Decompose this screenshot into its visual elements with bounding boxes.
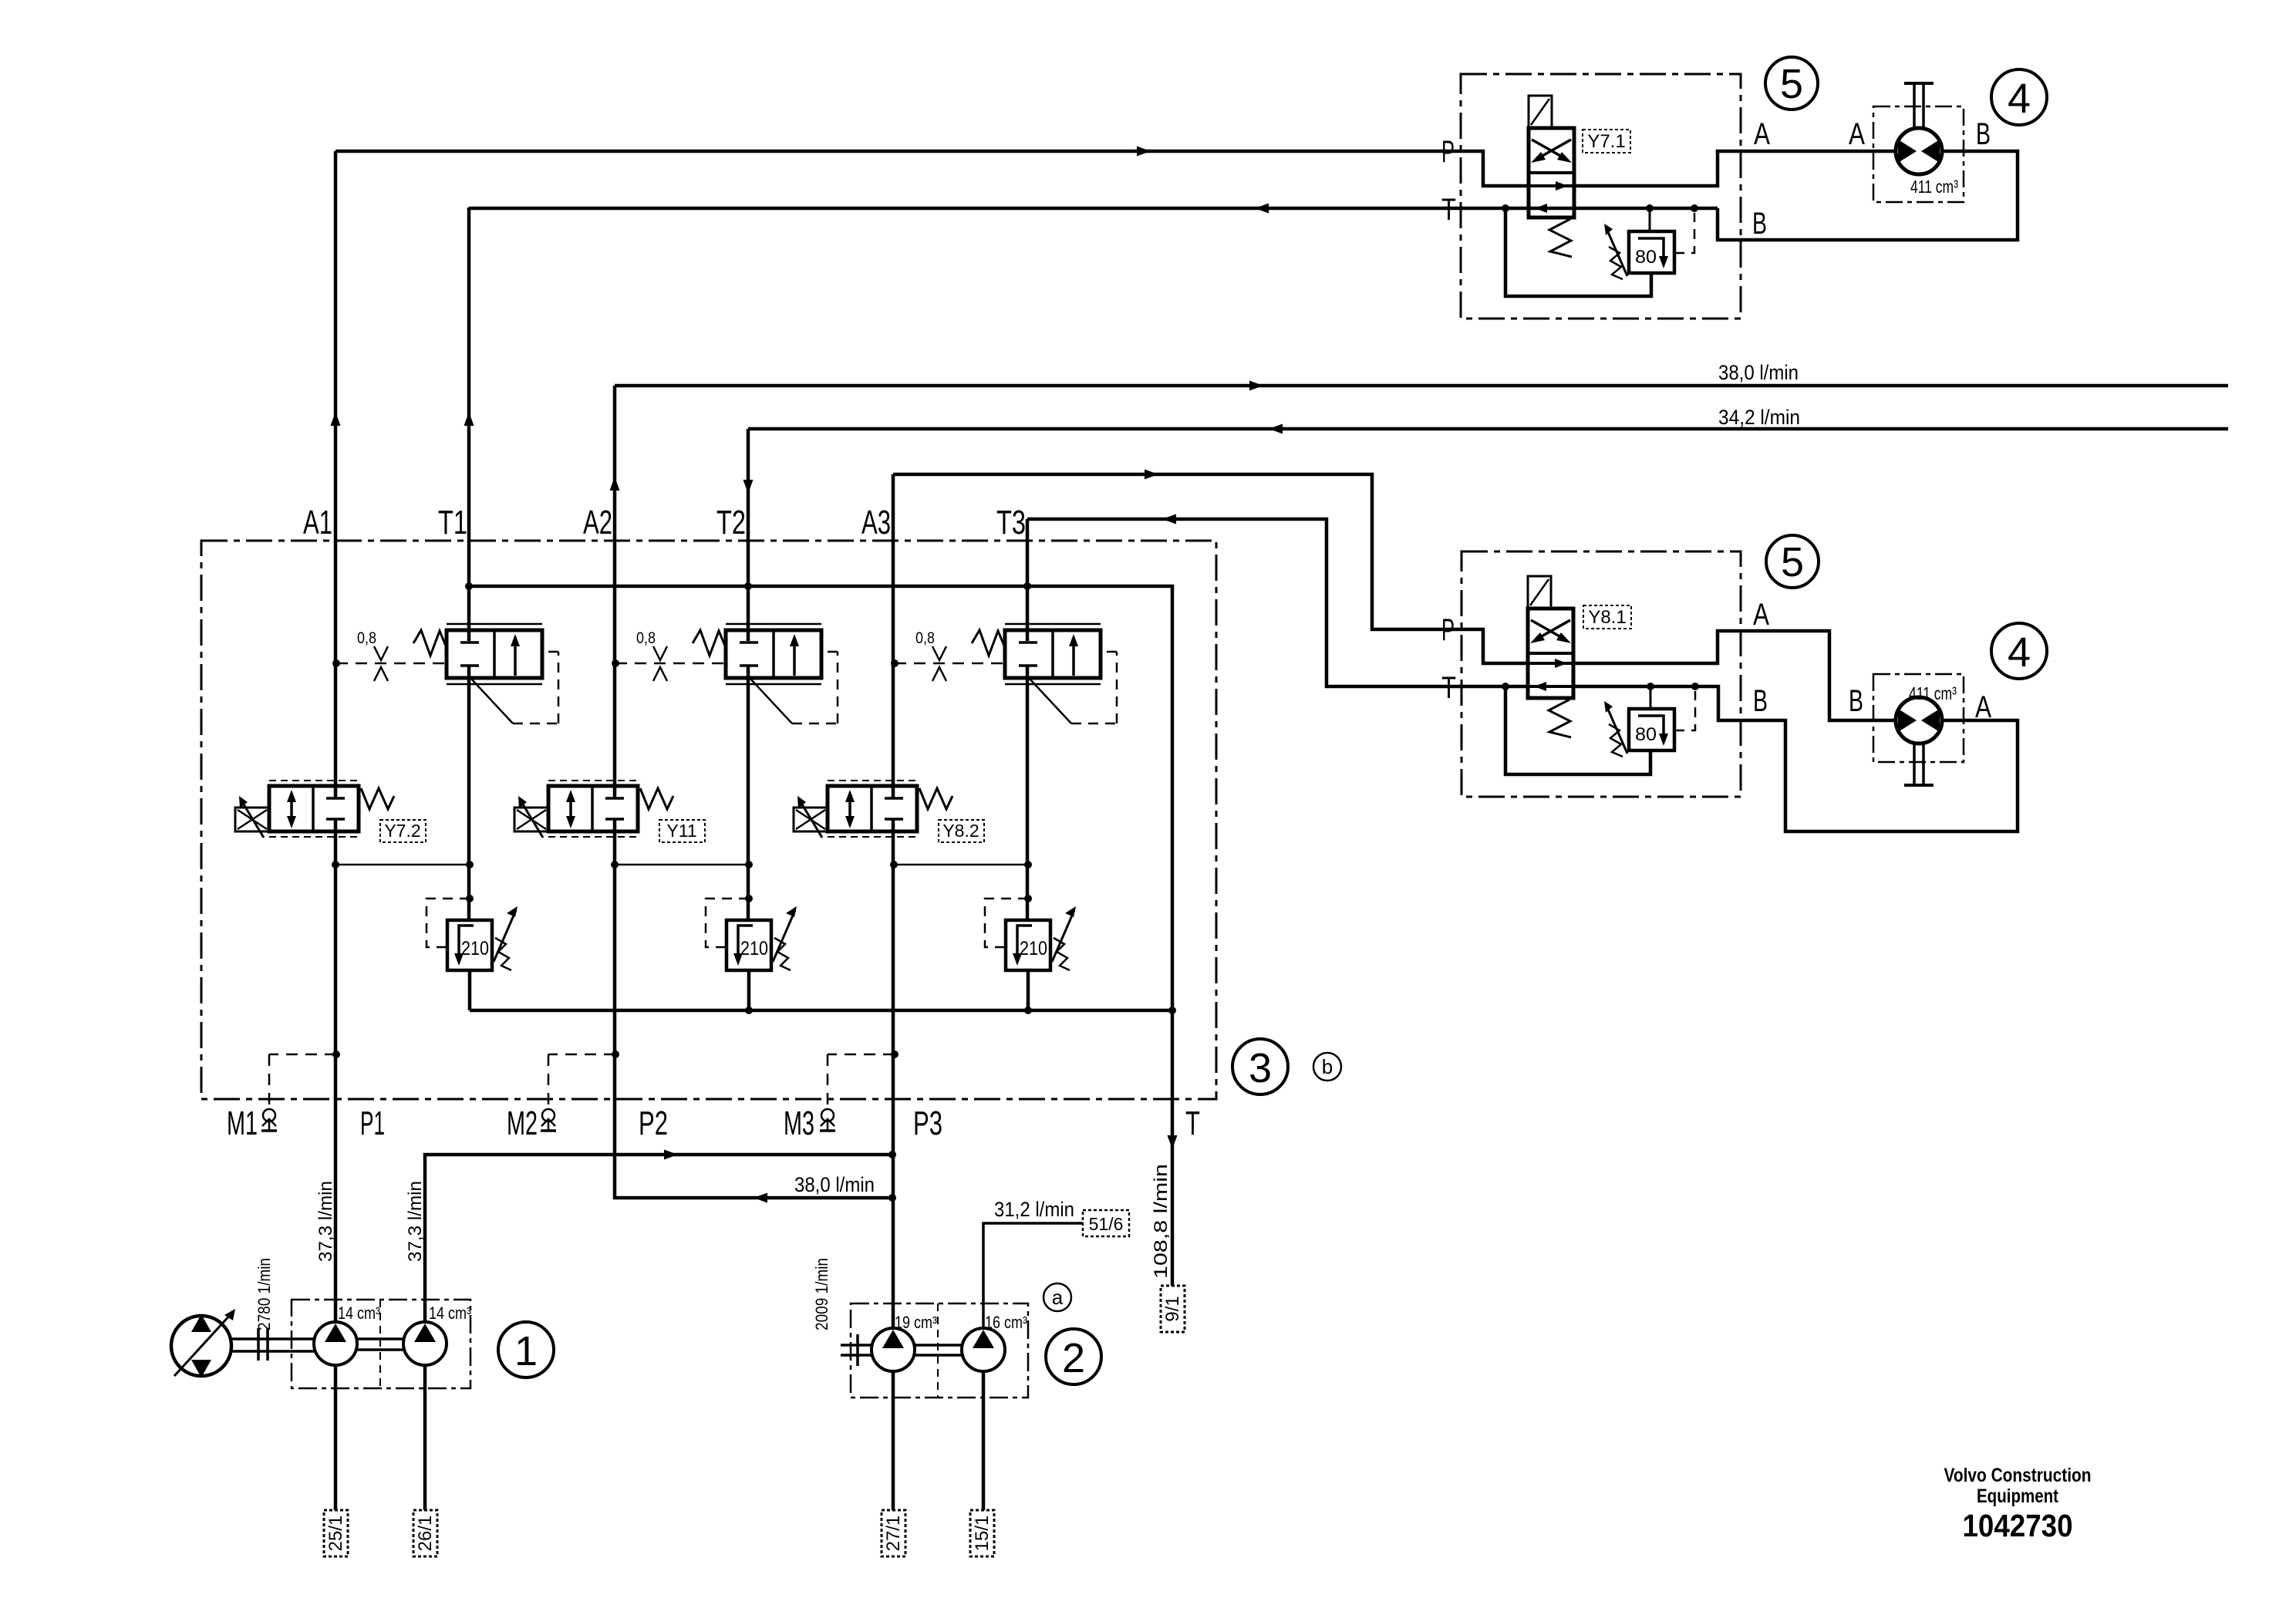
svg-text:A: A [1849, 117, 1865, 151]
svg-text:P2: P2 [639, 1104, 668, 1142]
svg-text:M2: M2 [507, 1104, 538, 1142]
svg-text:T1: T1 [438, 504, 467, 541]
svg-text:27/1: 27/1 [883, 1516, 904, 1552]
svg-text:A: A [1975, 690, 1991, 724]
svg-text:1: 1 [514, 1328, 538, 1374]
svg-text:A3: A3 [861, 504, 891, 541]
svg-text:A: A [1753, 598, 1769, 632]
svg-text:Y8.2: Y8.2 [942, 821, 979, 841]
svg-text:Equipment: Equipment [1977, 1485, 2059, 1507]
svg-text:M3: M3 [784, 1104, 814, 1142]
svg-text:9/1: 9/1 [1162, 1296, 1183, 1321]
svg-text:T3: T3 [996, 504, 1026, 541]
svg-text:T2: T2 [716, 504, 746, 541]
svg-text:T: T [1185, 1104, 1200, 1142]
svg-text:37,3 l/min: 37,3 l/min [315, 1181, 336, 1262]
svg-text:b: b [1322, 1055, 1333, 1078]
svg-text:25/1: 25/1 [325, 1516, 346, 1552]
svg-text:B: B [1849, 684, 1863, 718]
svg-text:A1: A1 [303, 504, 332, 541]
svg-text:411 cm³: 411 cm³ [1909, 683, 1957, 703]
svg-text:B: B [1976, 117, 1991, 151]
svg-text:B: B [1752, 207, 1767, 241]
svg-text:51/6: 51/6 [1089, 1214, 1124, 1234]
svg-text:a: a [1052, 1286, 1064, 1309]
svg-text:Volvo Construction: Volvo Construction [1944, 1465, 2092, 1486]
svg-text:P: P [1441, 135, 1455, 169]
svg-text:2780 1/min: 2780 1/min [255, 1258, 274, 1330]
svg-text:411 cm³: 411 cm³ [1910, 177, 1958, 197]
svg-text:1042730: 1042730 [1963, 1508, 2073, 1543]
svg-text:Y8.1: Y8.1 [1588, 607, 1626, 628]
svg-text:16 cm³: 16 cm³ [985, 1313, 1027, 1332]
svg-text:Y7.1: Y7.1 [1587, 131, 1625, 152]
svg-text:15/1: 15/1 [972, 1516, 993, 1552]
svg-text:19 cm³: 19 cm³ [895, 1313, 937, 1332]
svg-text:5: 5 [1780, 61, 1803, 107]
svg-text:P3: P3 [913, 1104, 942, 1142]
svg-text:31,2 l/min: 31,2 l/min [994, 1198, 1074, 1221]
svg-text:B: B [1753, 684, 1768, 718]
svg-text:Y11: Y11 [666, 821, 696, 841]
svg-text:M1: M1 [227, 1104, 258, 1142]
svg-text:108,8 l/min: 108,8 l/min [1151, 1164, 1172, 1279]
svg-text:A: A [1754, 117, 1770, 151]
svg-text:14 cm³: 14 cm³ [338, 1303, 380, 1323]
svg-text:38,0 l/min: 38,0 l/min [1718, 361, 1799, 384]
svg-text:37,3 l/min: 37,3 l/min [405, 1181, 426, 1262]
svg-text:3: 3 [1249, 1045, 1272, 1091]
svg-text:A2: A2 [583, 504, 612, 541]
svg-text:5: 5 [1781, 539, 1804, 585]
svg-text:Y7.2: Y7.2 [384, 821, 420, 841]
svg-text:34,2 l/min: 34,2 l/min [1718, 406, 1800, 429]
svg-text:4: 4 [2008, 76, 2031, 122]
svg-text:38,0 l/min: 38,0 l/min [794, 1173, 875, 1196]
svg-text:T: T [1441, 671, 1456, 705]
svg-text:P1: P1 [360, 1104, 385, 1142]
svg-text:2: 2 [1062, 1335, 1085, 1381]
svg-text:P: P [1441, 613, 1455, 647]
svg-text:26/1: 26/1 [415, 1516, 436, 1552]
svg-text:4: 4 [2008, 629, 2031, 676]
svg-text:T: T [1441, 193, 1456, 227]
svg-text:14 cm³: 14 cm³ [429, 1303, 471, 1323]
svg-text:2009 1/min: 2009 1/min [812, 1258, 831, 1330]
